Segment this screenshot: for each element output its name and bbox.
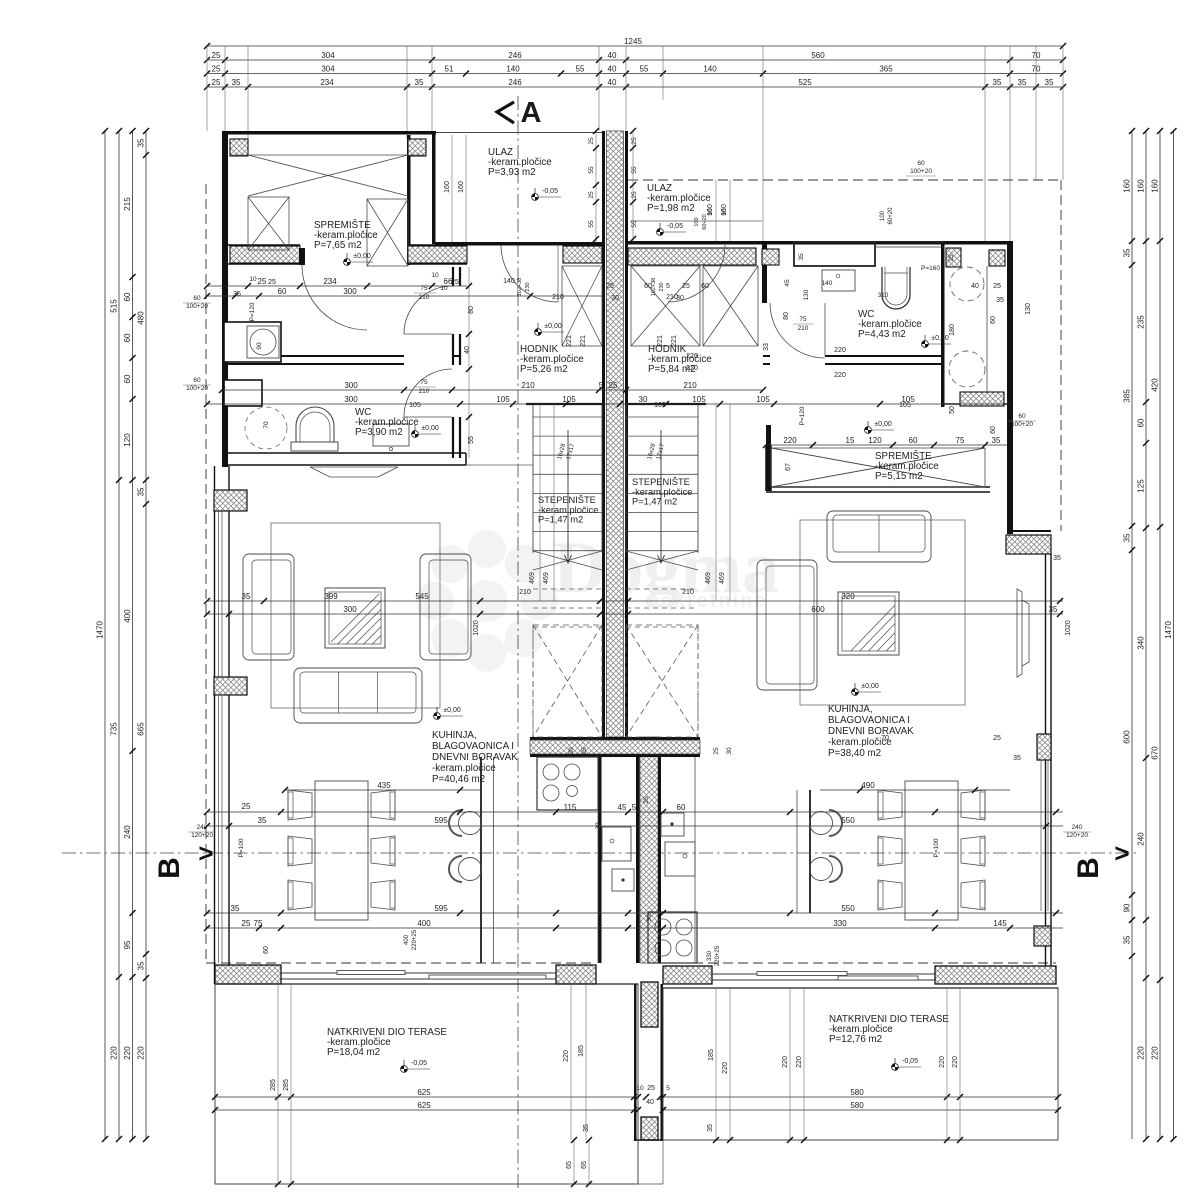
svg-text:230: 230 [659, 282, 665, 291]
svg-text:90: 90 [707, 208, 714, 216]
svg-text:595: 595 [434, 904, 448, 913]
svg-text:60: 60 [990, 316, 997, 324]
svg-text:105: 105 [899, 402, 911, 409]
svg-text:5: 5 [666, 1085, 670, 1092]
svg-text:1020: 1020 [1065, 620, 1072, 636]
svg-text:P=100: P=100 [238, 838, 245, 857]
svg-text:25: 25 [682, 283, 690, 290]
svg-text:60: 60 [193, 295, 201, 302]
svg-text:-0,05: -0,05 [902, 1058, 918, 1065]
svg-text:60+20: 60+20 [702, 214, 708, 229]
svg-text:-keram.pločice: -keram.pločice [828, 737, 892, 748]
svg-text:221: 221 [580, 335, 587, 347]
svg-text:330: 330 [833, 919, 847, 928]
svg-text:60+20: 60+20 [888, 207, 894, 225]
svg-text:75: 75 [799, 316, 807, 323]
svg-text:210: 210 [419, 388, 430, 395]
svg-text:100+20: 100+20 [910, 168, 932, 175]
svg-text:±0,00: ±0,00 [544, 323, 562, 330]
svg-text:220: 220 [123, 1046, 132, 1060]
svg-text:40: 40 [971, 283, 979, 290]
svg-text:80: 80 [783, 312, 790, 320]
svg-text:120: 120 [123, 433, 132, 447]
svg-text:35: 35 [232, 78, 241, 87]
svg-text:95: 95 [123, 940, 132, 949]
svg-text:10: 10 [440, 285, 448, 292]
svg-text:40: 40 [608, 64, 617, 73]
svg-text:25: 25 [588, 137, 595, 145]
svg-text:35: 35 [231, 904, 240, 913]
svg-text:330: 330 [707, 950, 713, 961]
svg-text:60: 60 [1137, 418, 1146, 427]
svg-text:25: 25 [948, 254, 955, 262]
svg-text:25: 25 [581, 747, 588, 755]
svg-text:P=5,84 m2: P=5,84 m2 [648, 364, 696, 375]
svg-text:300: 300 [344, 395, 358, 404]
svg-text:P=120: P=120 [249, 302, 256, 321]
svg-text:210: 210 [666, 294, 678, 301]
svg-text:80: 80 [468, 306, 475, 314]
svg-text:420: 420 [1151, 378, 1160, 392]
svg-text:35: 35 [1049, 605, 1058, 614]
svg-text:60: 60 [263, 946, 270, 954]
svg-text:P=3,90 m2: P=3,90 m2 [355, 427, 403, 438]
svg-text:65: 65 [581, 1161, 588, 1169]
svg-text:35: 35 [1045, 78, 1054, 87]
svg-text:25: 25 [258, 277, 267, 286]
svg-text:30: 30 [646, 914, 653, 922]
svg-text:310: 310 [878, 292, 889, 299]
svg-text:580: 580 [850, 1088, 864, 1097]
svg-text:BLAGOVAONICA I: BLAGOVAONICA I [432, 741, 514, 752]
svg-text:STEPENIŠTE: STEPENIŠTE [632, 477, 690, 487]
svg-text:60: 60 [677, 803, 686, 812]
svg-text:130: 130 [803, 289, 810, 300]
svg-text:35: 35 [1053, 555, 1061, 562]
svg-text:35: 35 [415, 78, 424, 87]
svg-text:60: 60 [917, 160, 925, 167]
svg-text:140: 140 [503, 278, 515, 285]
svg-text:300: 300 [343, 605, 357, 614]
svg-text:-keram.pločice: -keram.pločice [632, 487, 692, 497]
svg-text:300: 300 [343, 287, 357, 296]
svg-text:25: 25 [631, 191, 638, 199]
svg-text:25: 25 [268, 279, 276, 286]
svg-text:33: 33 [763, 343, 770, 351]
svg-text:35: 35 [1123, 248, 1132, 257]
svg-text:±0,00: ±0,00 [443, 707, 461, 714]
svg-text:35: 35 [1123, 533, 1132, 542]
svg-text:±0,00: ±0,00 [931, 335, 949, 342]
svg-text:550: 550 [841, 816, 855, 825]
svg-text:115: 115 [564, 803, 577, 812]
svg-text:304: 304 [321, 51, 335, 60]
svg-text:240: 240 [123, 825, 132, 839]
svg-text:25: 25 [643, 796, 650, 804]
svg-text:469: 469 [529, 572, 536, 584]
svg-text:1470: 1470 [96, 621, 105, 639]
svg-text:220: 220 [722, 1062, 729, 1074]
svg-text:580: 580 [850, 1101, 864, 1110]
svg-text:-0,05: -0,05 [542, 188, 558, 195]
svg-text:P=1,98 m2: P=1,98 m2 [647, 203, 695, 214]
svg-text:A: A [521, 97, 542, 129]
svg-text:51: 51 [445, 64, 454, 73]
svg-text:160: 160 [1137, 179, 1146, 193]
svg-text:480: 480 [137, 311, 146, 325]
svg-text:35: 35 [137, 138, 146, 147]
svg-text:60: 60 [123, 292, 132, 301]
svg-text:220: 220 [939, 1056, 946, 1068]
svg-text:10: 10 [249, 276, 257, 283]
svg-text:55: 55 [631, 220, 638, 228]
svg-text:246: 246 [508, 78, 522, 87]
svg-text:25: 25 [631, 137, 638, 145]
svg-text:469: 469 [543, 572, 550, 584]
svg-text:50: 50 [949, 406, 956, 414]
svg-text:90: 90 [256, 342, 263, 350]
svg-text:100+20: 100+20 [186, 385, 208, 392]
svg-text:240: 240 [1137, 832, 1146, 846]
svg-text:670: 670 [1151, 746, 1160, 760]
svg-text:490: 490 [861, 781, 875, 790]
svg-text:550: 550 [841, 904, 855, 913]
svg-text:220: 220 [1137, 1046, 1146, 1060]
svg-text:BLAGOVAONICA I: BLAGOVAONICA I [828, 715, 910, 726]
svg-text:625: 625 [417, 1088, 431, 1097]
svg-text:25: 25 [606, 283, 614, 290]
svg-text:P=3,93 m2: P=3,93 m2 [488, 167, 536, 178]
svg-text:60: 60 [701, 283, 709, 290]
svg-text:221: 221 [566, 335, 573, 347]
svg-text:35: 35 [707, 1124, 714, 1132]
svg-text:P=4,43 m2: P=4,43 m2 [858, 329, 906, 340]
svg-text:160: 160 [1123, 179, 1132, 193]
svg-text:5: 5 [632, 803, 637, 812]
svg-text:75: 75 [254, 919, 263, 928]
svg-text:55: 55 [631, 166, 638, 174]
svg-text:25: 25 [451, 279, 459, 286]
svg-text:220: 220 [563, 1050, 570, 1062]
svg-text:100: 100 [694, 217, 700, 226]
svg-text:35: 35 [798, 253, 805, 261]
svg-text:180: 180 [949, 324, 956, 336]
svg-text:600: 600 [1123, 730, 1132, 744]
svg-text:210: 210 [519, 589, 531, 596]
svg-text:145: 145 [993, 919, 1007, 928]
svg-text:215: 215 [123, 197, 132, 211]
svg-text:B: B [1072, 857, 1105, 879]
svg-text:665: 665 [137, 722, 146, 736]
svg-text:125: 125 [1137, 479, 1146, 493]
svg-text:160: 160 [444, 181, 451, 193]
svg-text:30: 30 [726, 747, 733, 755]
svg-text:210: 210 [552, 294, 564, 301]
svg-text:545: 545 [415, 592, 429, 601]
svg-text:25: 25 [242, 919, 251, 928]
svg-text:1245: 1245 [624, 37, 642, 46]
svg-text:STEPENIŠTE: STEPENIŠTE [538, 495, 596, 505]
svg-text:105: 105 [692, 395, 706, 404]
svg-text:210: 210 [682, 589, 694, 596]
svg-text:210: 210 [521, 381, 535, 390]
svg-text:160: 160 [1151, 179, 1160, 193]
svg-text:KUHINJA,: KUHINJA, [432, 730, 477, 741]
svg-text:515: 515 [110, 299, 119, 313]
svg-text:735: 735 [110, 722, 119, 736]
svg-text:130: 130 [1025, 303, 1032, 315]
svg-text:400: 400 [417, 919, 431, 928]
svg-text:P=5,26 m2: P=5,26 m2 [520, 364, 568, 375]
svg-text:40: 40 [464, 346, 471, 354]
svg-text:210: 210 [419, 294, 430, 301]
svg-text:5: 5 [599, 381, 604, 390]
svg-text:240: 240 [197, 824, 208, 831]
svg-text:60: 60 [123, 333, 132, 342]
svg-text:340: 340 [1137, 636, 1146, 650]
svg-text:30: 30 [639, 395, 648, 404]
svg-text:469: 469 [719, 572, 726, 584]
svg-text:P=160: P=160 [921, 265, 940, 272]
svg-text:-keram.pločice: -keram.pločice [538, 505, 598, 515]
svg-text:285: 285 [270, 1079, 277, 1091]
svg-text:60: 60 [909, 436, 918, 445]
svg-text:102+38: 102+38 [517, 278, 523, 297]
svg-text:240: 240 [1072, 824, 1083, 831]
svg-text:400: 400 [123, 609, 132, 623]
svg-text:40: 40 [646, 1099, 654, 1106]
svg-text:100+20: 100+20 [186, 303, 208, 310]
svg-text:-keram.pločice: -keram.pločice [432, 763, 496, 774]
svg-text:625: 625 [417, 1101, 431, 1110]
svg-text:600: 600 [811, 605, 825, 614]
svg-text:120+20: 120+20 [1066, 832, 1088, 839]
svg-text:P=1,47 m2: P=1,47 m2 [538, 515, 583, 525]
svg-text:P=5,15 m2: P=5,15 m2 [875, 471, 923, 482]
svg-text:60: 60 [1018, 413, 1026, 420]
svg-text:P=120: P=120 [799, 406, 806, 425]
svg-text:300: 300 [344, 381, 358, 390]
svg-text:230: 230 [525, 282, 531, 291]
svg-text:35: 35 [583, 1124, 590, 1132]
svg-text:35: 35 [1018, 78, 1027, 87]
svg-text:±0,00: ±0,00 [353, 253, 371, 260]
svg-text:90: 90 [721, 208, 728, 216]
svg-text:25: 25 [212, 78, 221, 87]
svg-text:P=1,47 m2: P=1,47 m2 [632, 497, 677, 507]
svg-text:220: 220 [137, 1046, 146, 1060]
svg-text:±0,00: ±0,00 [421, 425, 439, 432]
svg-text:35: 35 [137, 961, 146, 970]
svg-text:-0,05: -0,05 [667, 223, 683, 230]
svg-text:595: 595 [434, 816, 448, 825]
svg-text:±0,00: ±0,00 [874, 421, 892, 428]
svg-text:25: 25 [609, 381, 618, 390]
svg-text:469: 469 [705, 572, 712, 584]
svg-text:235: 235 [1137, 315, 1146, 329]
svg-text:>: > [1114, 838, 1129, 868]
svg-text:45: 45 [618, 803, 627, 812]
svg-text:KUHINJA,: KUHINJA, [828, 704, 873, 715]
svg-text:55: 55 [588, 220, 595, 228]
svg-text:75: 75 [420, 379, 428, 386]
svg-text:435: 435 [377, 781, 391, 790]
svg-text:105: 105 [756, 395, 770, 404]
svg-text:70: 70 [263, 421, 270, 429]
svg-text:25: 25 [212, 64, 221, 73]
svg-text:60: 60 [278, 287, 287, 296]
svg-text:15: 15 [846, 436, 855, 445]
svg-text:1470: 1470 [1164, 621, 1173, 639]
svg-text:385: 385 [1123, 389, 1132, 403]
svg-text:234: 234 [323, 277, 337, 286]
svg-text:25: 25 [647, 1085, 655, 1092]
svg-text:25: 25 [212, 51, 221, 60]
svg-text:304: 304 [321, 64, 335, 73]
svg-text:35: 35 [1123, 935, 1132, 944]
svg-text:100: 100 [880, 210, 886, 221]
svg-text:560: 560 [811, 51, 825, 60]
svg-text:25: 25 [713, 747, 720, 755]
svg-text:140: 140 [506, 64, 520, 73]
svg-text:75: 75 [420, 285, 428, 292]
svg-text:120: 120 [868, 436, 882, 445]
svg-text:220: 220 [783, 436, 797, 445]
svg-text:140: 140 [822, 280, 833, 287]
svg-text:400: 400 [404, 934, 410, 945]
svg-text:35: 35 [993, 78, 1002, 87]
svg-text:DNEVNI BORAVAK: DNEVNI BORAVAK [432, 752, 518, 763]
svg-text:25: 25 [993, 283, 1001, 290]
svg-text:10: 10 [636, 1085, 644, 1092]
svg-text:35: 35 [137, 487, 146, 496]
svg-text:35: 35 [258, 816, 267, 825]
svg-text:185: 185 [578, 1045, 585, 1057]
svg-text:B: B [153, 857, 186, 879]
svg-text:102+38: 102+38 [651, 278, 657, 297]
svg-text:-0,05: -0,05 [411, 1060, 427, 1067]
svg-text:55: 55 [588, 166, 595, 174]
svg-text:60: 60 [990, 426, 997, 434]
svg-text:105: 105 [496, 395, 510, 404]
svg-text:67: 67 [785, 463, 792, 471]
svg-text:55: 55 [576, 64, 585, 73]
svg-text:55: 55 [468, 436, 475, 444]
svg-text:30: 30 [611, 295, 619, 302]
svg-text:234: 234 [320, 78, 334, 87]
svg-text:210: 210 [798, 325, 809, 332]
svg-text:60: 60 [193, 377, 201, 384]
svg-text:25: 25 [242, 802, 251, 811]
svg-text:35: 35 [233, 291, 241, 298]
svg-text:525: 525 [798, 78, 812, 87]
svg-text:365: 365 [879, 64, 893, 73]
svg-text:220: 220 [834, 372, 846, 379]
svg-text:60: 60 [123, 374, 132, 383]
svg-text:220: 220 [110, 1046, 119, 1060]
svg-text:220+25: 220+25 [715, 945, 721, 966]
svg-text:220: 220 [796, 1056, 803, 1068]
svg-text:25: 25 [993, 735, 1001, 742]
svg-text:P=7,65 m2: P=7,65 m2 [314, 240, 362, 251]
svg-text:140: 140 [703, 64, 717, 73]
svg-text:P=38,40 m2: P=38,40 m2 [828, 748, 881, 759]
svg-text:246: 246 [508, 51, 522, 60]
svg-text:40: 40 [608, 51, 617, 60]
svg-text:P=12,76 m2: P=12,76 m2 [829, 1034, 882, 1045]
svg-text:160: 160 [458, 181, 465, 193]
svg-text:25: 25 [588, 191, 595, 199]
svg-text:100+20: 100+20 [1011, 421, 1033, 428]
svg-text:220: 220 [1151, 1046, 1160, 1060]
svg-text:220+25: 220+25 [412, 929, 418, 950]
svg-text:30: 30 [568, 747, 575, 755]
svg-text:65: 65 [566, 1161, 573, 1169]
svg-text:±0,00: ±0,00 [861, 683, 879, 690]
svg-text:285: 285 [283, 1079, 290, 1091]
svg-text:10: 10 [431, 272, 439, 279]
svg-text:185: 185 [708, 1049, 715, 1061]
svg-text:P=40,46 m2: P=40,46 m2 [432, 774, 485, 785]
svg-text:399: 399 [324, 592, 338, 601]
svg-text:90: 90 [1123, 903, 1132, 912]
svg-text:40: 40 [608, 78, 617, 87]
svg-text:P=18,04 m2: P=18,04 m2 [327, 1047, 380, 1058]
svg-text:P=100: P=100 [933, 838, 940, 857]
svg-text:210: 210 [683, 381, 697, 390]
svg-text:105: 105 [409, 402, 421, 409]
svg-text:35: 35 [992, 436, 1001, 445]
svg-text:120+20: 120+20 [191, 832, 213, 839]
svg-text:105: 105 [654, 402, 666, 409]
svg-text:5: 5 [666, 283, 670, 290]
svg-text:45: 45 [784, 279, 791, 287]
svg-text:55: 55 [640, 64, 649, 73]
svg-text:220: 220 [782, 1056, 789, 1068]
svg-text:35: 35 [1013, 755, 1021, 762]
svg-text:75: 75 [956, 436, 965, 445]
svg-text:105: 105 [562, 395, 576, 404]
svg-text:220: 220 [834, 347, 846, 354]
svg-text:35: 35 [996, 297, 1004, 304]
svg-text:35: 35 [242, 592, 251, 601]
svg-text:1020: 1020 [473, 620, 480, 636]
svg-text:220: 220 [952, 1056, 959, 1068]
svg-text:DNEVNI BORAVAK: DNEVNI BORAVAK [828, 726, 914, 737]
svg-text:320: 320 [841, 592, 855, 601]
